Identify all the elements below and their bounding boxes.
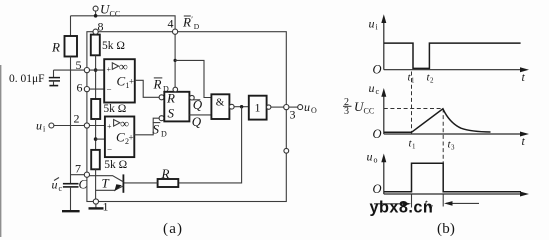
Ucc supply terminal: [93, 6, 98, 11]
svg-text:0. 01μF: 0. 01μF: [9, 73, 45, 85]
dashed t3 vertical: [442, 109, 444, 164]
wire branch down to R base resistor: [178, 107, 241, 183]
wire R down to pin7 node: [70, 57, 72, 184]
0.01uF capacitor to ground on pin5: [54, 69, 87, 71]
svg-text:(a): (a): [163, 221, 183, 237]
output terminal u_o: [289, 106, 298, 108]
wire pin6 to C1 -: [87, 88, 104, 90]
svg-text:R: R: [161, 166, 170, 181]
svg-text:1: 1: [255, 101, 261, 115]
wire pin2 to C2 +: [87, 125, 105, 127]
gate1 out bubble: [267, 105, 271, 109]
svg-text:&: &: [216, 96, 225, 108]
svg-text:c: c: [376, 87, 380, 96]
svg-text:u: u: [369, 17, 375, 31]
svg-text:3: 3: [451, 144, 455, 152]
svg-text:4: 4: [168, 16, 174, 30]
svg-text:D: D: [194, 22, 200, 31]
wf1 x axis: [384, 69, 526, 71]
resistor 5k top: [91, 35, 100, 56]
comparator C1: [104, 59, 135, 102]
wire R to T base: [123, 182, 157, 184]
wire pin7 external: [71, 174, 87, 176]
pin 3: [284, 105, 289, 110]
wire AND out to gate 1: [234, 106, 249, 108]
svg-text:1: 1: [103, 200, 109, 214]
svg-text:+: +: [129, 132, 134, 142]
svg-text:o: o: [374, 156, 378, 165]
wf3 y axis: [383, 157, 385, 194]
resistor 5k middle: [91, 99, 100, 119]
svg-text:u: u: [367, 150, 373, 164]
svg-text:2: 2: [430, 77, 434, 85]
wf3 signal: [384, 163, 521, 191]
node A dot (pin5 node): [94, 68, 98, 72]
wf3 x axis: [384, 193, 526, 195]
pin 8: [93, 29, 98, 34]
gate 1 (buffer): [249, 96, 267, 120]
wire C1 out to R input: [135, 80, 159, 97]
svg-text:+: +: [129, 76, 134, 86]
pin 2: [84, 123, 89, 128]
svg-text:3: 3: [290, 108, 296, 122]
pin 1: [93, 199, 98, 204]
wire node B to C2 lower input: [96, 138, 105, 140]
wire pin4 branch to AND input: [175, 60, 211, 97]
wire top5k to node A: [95, 55, 97, 99]
wf2 y axis: [383, 92, 385, 135]
wire to pin 3: [271, 106, 286, 108]
dashed t1 vertical: [411, 72, 413, 135]
Qbar output bubble: [190, 95, 195, 100]
pin 1 ground: [95, 204, 97, 208]
svg-text:5k Ω: 5k Ω: [102, 40, 125, 52]
wf1 signal: [384, 43, 521, 68]
width marker right arrow: [446, 202, 479, 204]
comparator C2: [105, 117, 134, 158]
capacitor C (timing cap): [63, 183, 79, 185]
svg-text:(b): (b): [437, 221, 455, 237]
pin 7: [84, 172, 89, 177]
S input bubble: [159, 116, 164, 121]
resistor R (left timing resistor): [65, 36, 78, 57]
svg-text:3: 3: [344, 106, 349, 117]
svg-text:R: R: [182, 15, 191, 30]
dashed level 2/3Ucc: [384, 108, 443, 110]
svg-text:O: O: [373, 182, 382, 196]
Ucc junction dot: [94, 14, 98, 18]
svg-text:C: C: [79, 177, 88, 192]
pin 6: [84, 87, 89, 92]
svg-text:S: S: [153, 121, 160, 136]
svg-text:T: T: [102, 175, 110, 190]
svg-text:5: 5: [76, 58, 82, 72]
wf2 signal: [384, 109, 491, 133]
FF top reset bubble: [173, 87, 178, 92]
wire Ucc to R: [70, 16, 72, 36]
ground below C: [62, 210, 80, 212]
IC package border: [87, 32, 286, 202]
svg-text:u: u: [36, 118, 42, 132]
width marker left arrow: [374, 203, 409, 205]
svg-text:C: C: [116, 130, 125, 145]
flip-flop box: [164, 92, 189, 122]
svg-text:CC: CC: [110, 10, 121, 19]
AND out bubble: [229, 104, 234, 109]
svg-text:Q: Q: [192, 114, 202, 129]
width marker ticks: [411, 195, 413, 208]
wire bottom5k to ground rail: [95, 169, 97, 201]
Ucc rail: [71, 16, 176, 29]
svg-text:u: u: [304, 100, 310, 114]
Q output wire to AND: [189, 114, 211, 116]
wf1 y axis: [383, 18, 385, 70]
branch dot to AND gate: [174, 59, 177, 62]
svg-text:ybx8.cn: ybx8.cn: [370, 199, 434, 217]
wire pin5 to C1 +: [87, 69, 104, 71]
node B dot (C2 ref node): [94, 137, 98, 141]
svg-text:CC: CC: [364, 106, 375, 115]
pin 5: [84, 68, 89, 73]
wire C2 out to S input: [134, 118, 159, 135]
svg-text:∞: ∞: [119, 60, 128, 74]
svg-text:5k Ω: 5k Ω: [104, 159, 127, 171]
svg-text:+: +: [107, 122, 112, 131]
svg-text:c: c: [59, 184, 63, 193]
wf2 x axis: [384, 133, 526, 135]
svg-text:∞: ∞: [120, 116, 129, 130]
svg-text:2: 2: [74, 112, 80, 126]
svg-text:R: R: [166, 90, 175, 105]
AND gate: [211, 94, 229, 119]
svg-text:R: R: [51, 40, 60, 55]
svg-text:7: 7: [75, 162, 81, 176]
unused right edge pin: [284, 148, 289, 153]
svg-text:5k Ω: 5k Ω: [103, 103, 126, 115]
svg-text:+: +: [107, 65, 112, 74]
svg-text:O: O: [373, 127, 382, 141]
resistor R (base): [158, 179, 179, 187]
svg-text:O: O: [373, 63, 382, 77]
junction dot to base branch: [240, 105, 243, 108]
R input bubble: [159, 95, 164, 100]
pin 4: [173, 29, 178, 34]
svg-text:C: C: [117, 74, 126, 89]
svg-text:−: −: [107, 145, 112, 155]
wire mid5k to bottom5k: [95, 119, 97, 150]
svg-text:u: u: [369, 81, 375, 95]
svg-text:R: R: [153, 77, 162, 92]
transistor T: [122, 174, 124, 192]
svg-text:1: 1: [412, 143, 416, 151]
resistor 5k bottom: [91, 150, 100, 169]
svg-text:D: D: [161, 129, 167, 138]
svg-text:O: O: [311, 106, 317, 115]
internal: pin8 to top 5k: [95, 32, 97, 35]
svg-text:6: 6: [77, 81, 83, 95]
wire pin4 down to FF: [174, 32, 176, 87]
svg-text:S: S: [168, 105, 175, 120]
svg-text:−: −: [107, 84, 112, 94]
u_i input terminal: [49, 123, 54, 128]
left scan edge artifact: [0, 65, 2, 237]
